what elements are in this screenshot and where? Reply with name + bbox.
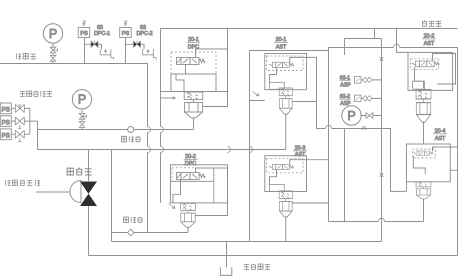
wire line A (y=129.7) HP safety oil distribution bbox=[38, 129, 194, 131]
solenoid valve U6 (dashed enclosure) bbox=[413, 149, 436, 158]
wire col3 right boundary bbox=[457, 48, 459, 256]
wire col1 left edge extension down bbox=[160, 92, 162, 203]
shutoff valve PS1 row bbox=[11, 107, 30, 109]
svg-text:AST: AST bbox=[424, 41, 435, 47]
svg-text:DPC: DPC bbox=[185, 161, 196, 167]
check valve on line A bbox=[128, 127, 134, 133]
label nizhifa (check valve) on line C bbox=[124, 217, 143, 223]
unit U6 20-4 AST box bbox=[406, 144, 450, 182]
hop on return line over x=381.5 bbox=[378, 218, 384, 221]
solenoid valve (filled) DPC-1 bbox=[91, 41, 98, 48]
poppet cartridge U5 (smaller) bbox=[416, 90, 431, 123]
gauge P2 bbox=[72, 90, 91, 109]
svg-text:AST: AST bbox=[276, 45, 287, 51]
wire U4 valve drain bbox=[270, 170, 277, 186]
solenoid valve U3 (dashed enclosure) bbox=[267, 56, 304, 71]
svg-text:DPC: DPC bbox=[188, 45, 199, 51]
pressure switch box 63-2 bbox=[355, 95, 362, 102]
wire tank stub bbox=[226, 242, 228, 268]
pressure switch PS DPC-2 bbox=[120, 28, 132, 38]
drain bracket DPC-1 bbox=[100, 49, 113, 60]
wire drop from fast-close line x=147 down to return line C bbox=[147, 64, 149, 233]
poppet cartridge U1 bbox=[184, 92, 203, 118]
pressure switch PS2 (HP) bbox=[0, 116, 11, 127]
shutoff valve PS3 row bbox=[11, 133, 30, 135]
pressure switch box 63-1 bbox=[355, 77, 362, 84]
svg-text:AST: AST bbox=[295, 152, 306, 158]
check valve on line C bbox=[128, 229, 134, 236]
wire branch to solenoid drain valve DPC-2 bbox=[126, 44, 145, 49]
wire U1 valve drain bbox=[176, 65, 186, 92]
wire pressure-oil tap down into ASP block bbox=[374, 29, 376, 39]
diaphragm valve (filled bowtie) bbox=[80, 182, 97, 207]
solenoid valve U5 (dashed enclosure) bbox=[410, 59, 438, 70]
unit U4 20-3 AST box bbox=[265, 156, 307, 192]
wire U4 poppet outlet to line C bbox=[285, 217, 287, 242]
label yaliyou (pressure oil) bbox=[422, 20, 441, 26]
solenoid valve U4 (dashed enclosure) bbox=[267, 158, 304, 173]
svg-text:63: 63 bbox=[97, 25, 103, 31]
wire 63-1 row with twin check diamonds bbox=[361, 79, 382, 81]
wire U5 pilot loop bbox=[433, 54, 456, 85]
wire diaphragm feed drop x=88.2 bbox=[88, 150, 90, 182]
label gemofa (diaphragm valve) bbox=[67, 168, 92, 176]
orifice x-marker on ASP right collector bbox=[362, 57, 383, 177]
wire U3 pilot feed arrow bbox=[253, 92, 260, 97]
wire U5 valve drain bbox=[415, 67, 424, 88]
pressure switch PS3 (HP) bbox=[0, 129, 11, 140]
wire pressure oil drop to U5 bbox=[397, 29, 409, 53]
label kuaiguanyou (fast-close oil) bbox=[16, 54, 36, 60]
unit U2 20-2 DPC solenoid valve (dashed enclosure) bbox=[170, 165, 227, 203]
label wuya huiyou (no-pressure return oil) bbox=[244, 264, 270, 270]
shutoff valve PS2 row bbox=[11, 120, 37, 122]
gauge P1 (fast-close oil) bbox=[43, 24, 62, 43]
wire diaphragm valve outlet down to line E bbox=[88, 206, 90, 256]
ASP block verticals and top edge bbox=[345, 39, 382, 242]
diaphragm actuator half-circle bbox=[70, 181, 81, 203]
wire U6 poppet outlet to line y=218 bbox=[423, 199, 425, 222]
wire line C (y=231) no-pressure return collector bbox=[112, 232, 189, 234]
wire LP safety oil to diaphragm actuator bbox=[36, 191, 70, 193]
col2 outer enclosure box bbox=[250, 48, 329, 242]
wire U2 poppet outlet to line C bbox=[187, 227, 189, 232]
solenoid valve U1 (dashed enclosure) bbox=[171, 52, 216, 74]
label nizhifa (check valve) on line A bbox=[122, 136, 141, 142]
unit U3 20-1 AST box bbox=[265, 54, 307, 90]
wire branch to solenoid drain valve DPC-1 bbox=[84, 44, 102, 49]
wire line E (y=257) drain to right edge bbox=[89, 255, 458, 257]
gauge P3 bbox=[342, 106, 361, 125]
hops on header over x=329.5 and x=396.6 bbox=[325, 125, 331, 128]
wire joining PS rows bbox=[29, 108, 31, 134]
wire U3 pilot loop bbox=[290, 57, 317, 128]
wire col3 top edge y=47.5 with hop over x=396.6 bbox=[329, 47, 458, 49]
hop marks on col1 edges over lines A and B bbox=[161, 127, 164, 153]
unit U1 20-1 DPC outer box bbox=[161, 29, 228, 92]
wire AST pilot header y=128.9 bbox=[317, 129, 407, 192]
actuator tick above DPC-1 bbox=[83, 21, 86, 26]
actuator tick above DPC-2 bbox=[124, 21, 127, 26]
hop marks on x=147 over lines A and B bbox=[148, 127, 151, 153]
wire U6 valve drain bbox=[413, 156, 425, 174]
U1 inner body box bbox=[171, 74, 216, 92]
svg-text:ASP: ASP bbox=[340, 82, 351, 88]
valve V2 under gauge P2 bbox=[79, 113, 86, 127]
drain bracket DPC-2 bbox=[143, 49, 156, 60]
wire PS DPC-1 down to line y=63 bbox=[84, 38, 86, 64]
svg-text:DPC-1: DPC-1 bbox=[94, 31, 110, 37]
wire U4 pilot loop bbox=[290, 160, 329, 203]
label diya anquanyou (LP safety oil) bbox=[6, 180, 40, 186]
wire drop x=96.8 to bottom return lines bbox=[111, 150, 113, 242]
solenoid valve (filled) DPC-2 bbox=[134, 41, 141, 48]
wire gauge P2 stem bbox=[81, 109, 83, 130]
wire U3 valve drain bbox=[270, 68, 277, 84]
label gaoya anquanyou (HP safety oil) bbox=[20, 91, 52, 97]
wire U2 valve drain and arrow bbox=[173, 180, 181, 203]
wire gauge P3 to collector with shutoff bowtie bbox=[361, 115, 382, 117]
wire line B (y=146) safety oil supply bbox=[38, 149, 286, 151]
poppet cartridge U3 (smaller) bbox=[279, 88, 292, 114]
svg-text:DPC-2: DPC-2 bbox=[137, 31, 153, 37]
wire HP safety oil to line A bbox=[37, 121, 39, 149]
poppet cartridge U4 (smaller) bbox=[279, 191, 292, 217]
wire U3 poppet outlet down to U4 bbox=[285, 114, 287, 149]
wire PS DPC-2 down to line y=63 bbox=[125, 38, 127, 64]
wire gauge P1 stem bbox=[52, 43, 54, 63]
wire line D (y=241.5) return bbox=[112, 241, 382, 243]
svg-text:PS: PS bbox=[2, 119, 10, 126]
wire U2 pilot loop bbox=[195, 168, 227, 216]
pressure switch PS1 (HP) bbox=[0, 103, 11, 114]
wire fast-close oil main line y=63 bbox=[0, 63, 148, 65]
svg-text:63: 63 bbox=[140, 25, 146, 31]
poppet cartridge U6 (smaller) bbox=[416, 182, 431, 199]
wire U6 pilot loop bbox=[433, 147, 458, 170]
wire AST return line y=221 bbox=[329, 221, 424, 223]
tank symbol (no-pressure return oil) bbox=[220, 267, 231, 275]
wire U1 pilot loop bbox=[196, 49, 228, 107]
wire U1 pilot feed arrow bbox=[161, 97, 176, 99]
valve V1 under gauge P1 bbox=[50, 47, 57, 61]
wire U1 poppet outlet to line A bbox=[193, 118, 195, 130]
svg-text:PS: PS bbox=[2, 133, 10, 140]
svg-text:PS: PS bbox=[2, 107, 10, 114]
pressure switch PS DPC-1 bbox=[78, 28, 90, 38]
wire pressure oil supply line y=27.7 bbox=[228, 28, 458, 30]
poppet cartridge U2 bbox=[181, 203, 196, 227]
wire U5 poppet outlet down to U6 bbox=[423, 122, 425, 144]
svg-text:AST: AST bbox=[435, 136, 446, 142]
unit U5 20-2 AST box bbox=[408, 52, 453, 90]
wire 63-2 row with twin check diamonds bbox=[361, 97, 382, 99]
